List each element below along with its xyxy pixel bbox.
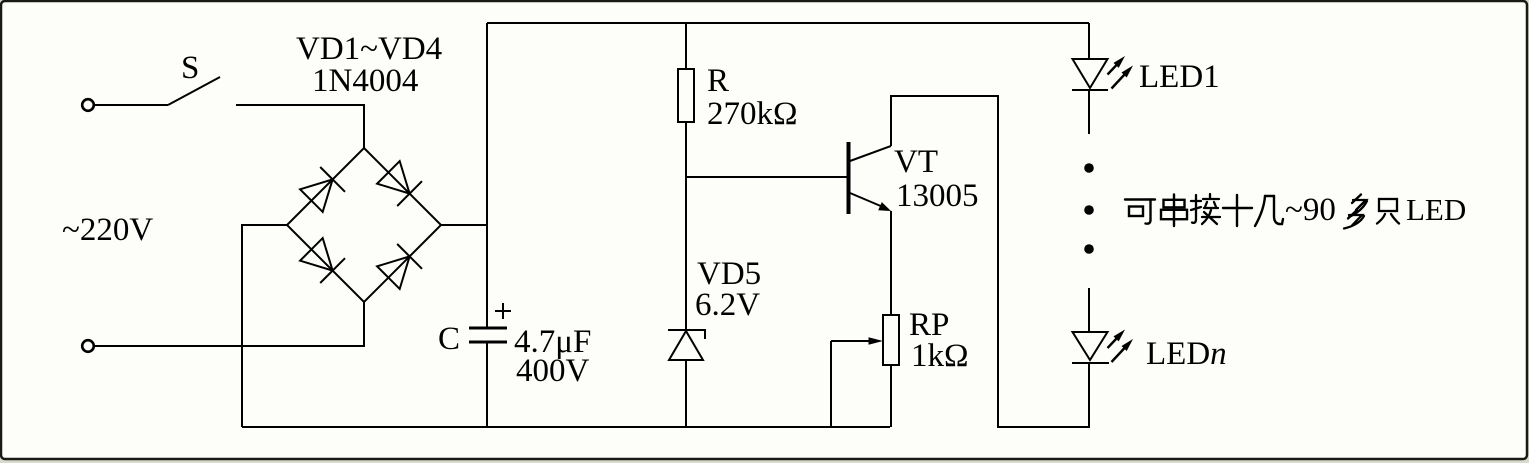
annotation chinese: shi (十): [1223, 195, 1252, 226]
svg-text:~90: ~90: [1285, 192, 1336, 228]
svg-text:~220V: ~220V: [62, 212, 153, 248]
svg-text:1N4004: 1N4004: [312, 63, 418, 99]
svg-text:1kΩ: 1kΩ: [911, 338, 969, 374]
wire bottom bus: [242, 426, 890, 428]
annotation chinese: chuan (串): [1161, 195, 1187, 227]
wire switch to bridge top: [236, 105, 364, 148]
dot 1: [1084, 163, 1094, 173]
wire to LEDn: [1088, 288, 1090, 332]
svg-text:LED: LED: [1406, 192, 1466, 227]
transistor VT emitter lead: [850, 193, 883, 207]
wire top bus to resistor R: [685, 23, 687, 69]
LEDn emission arrows: [1108, 330, 1134, 363]
wire collector to LED return: [891, 96, 1089, 427]
wire emitter to RP: [890, 211, 892, 315]
svg-text:S: S: [181, 50, 199, 86]
svg-text:C: C: [438, 321, 460, 357]
transistor VT collector lead: [850, 146, 891, 161]
svg-text:LED1: LED1: [1139, 59, 1220, 95]
dot 2: [1084, 205, 1094, 215]
wire base node to transistor: [686, 176, 847, 178]
diode VD3 (bottom-left arm): [300, 238, 345, 283]
wire +rail above capacitor: [486, 23, 488, 328]
wire bridge left vertex to bottom bus: [242, 225, 287, 427]
capacitor plus sign: [495, 303, 511, 319]
svg-text:LEDn: LEDn: [1146, 336, 1227, 372]
LEDn diode: [1072, 332, 1109, 363]
transistor VT base bar: [847, 142, 851, 214]
annotation chinese: ji (几): [1255, 196, 1283, 226]
svg-text:R: R: [707, 63, 729, 99]
wire zener to bottom bus: [685, 360, 687, 427]
wire top bus to LED1: [1088, 23, 1090, 59]
bridge diamond wires: [287, 148, 441, 302]
switch S blade: [168, 77, 220, 105]
svg-text:VT: VT: [894, 144, 938, 180]
wire terminal to switch: [94, 104, 168, 106]
wire LED1 down: [1088, 90, 1090, 134]
wire capacitor to bottom bus: [486, 342, 488, 427]
resistor R body: [678, 69, 694, 122]
svg-text:VD1~VD4: VD1~VD4: [296, 31, 442, 67]
svg-text:400V: 400V: [516, 353, 590, 389]
diode VD1 (top-left arm): [300, 167, 345, 212]
wire top bus: [487, 22, 1089, 24]
wire wiper to bottom bus: [830, 341, 832, 427]
svg-text:6.2V: 6.2V: [695, 287, 760, 323]
annotation chinese: duo (多): [1344, 195, 1367, 229]
svg-text:13005: 13005: [896, 178, 979, 214]
terminal top-left: [82, 99, 94, 111]
wire R to zener: [685, 122, 687, 331]
diode VD4 (bottom-right arm): [377, 244, 422, 289]
potentiometer RP body: [883, 315, 899, 365]
LED1 emission arrows: [1108, 56, 1134, 89]
svg-text:270kΩ: 270kΩ: [707, 96, 798, 132]
capacitor C plates: [469, 328, 507, 342]
annotation chinese: jie (接): [1191, 194, 1220, 224]
wire bridge right vertex to +rail: [441, 224, 487, 226]
LED1 diode: [1072, 59, 1108, 90]
wire RP to bottom bus: [890, 365, 892, 427]
annotation chinese: zhi (只): [1377, 199, 1399, 224]
terminal bottom-left: [82, 340, 94, 352]
diode VD2 (top-right arm): [377, 161, 422, 206]
transistor VT emitter arrow: [878, 202, 891, 211]
dot 3: [1084, 244, 1094, 254]
potentiometer RP wiper wire: [831, 340, 873, 342]
wire terminal to bridge bottom: [94, 302, 364, 346]
zener diode VD5: [668, 330, 705, 360]
potentiometer RP wiper arrow: [869, 337, 884, 345]
annotation chinese: ke (可): [1125, 200, 1155, 224]
